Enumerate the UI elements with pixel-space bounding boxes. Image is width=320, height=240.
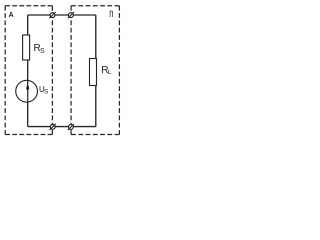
wire right [95,15,97,127]
source arrow [27,86,29,102]
voltage source Us [16,80,38,102]
box A dashed border top [5,5,52,7]
svg-text:S: S [40,48,45,55]
wire left [27,15,29,127]
terminal top-left [49,12,55,18]
resistor RL [90,59,97,86]
box A dashed border bottom [5,134,52,136]
svg-text:A: A [9,12,14,19]
wire bottom [28,126,96,128]
terminal bottom-left [50,124,56,130]
svg-text:L: L [108,69,112,76]
background [0,0,125,140]
resistor Rs [23,35,30,60]
box A dashed border right [51,6,53,135]
box B dashed border bottom [71,134,119,136]
box B dashed border right [118,6,120,135]
svg-text:S: S [44,89,49,96]
svg-text:n: n [109,6,113,20]
box B dashed border top [71,5,119,7]
terminal top-right [68,12,74,18]
box A dashed border left [4,6,6,135]
wire top [28,14,96,16]
box B dashed border left [70,6,72,135]
terminal bottom-right [68,124,74,130]
